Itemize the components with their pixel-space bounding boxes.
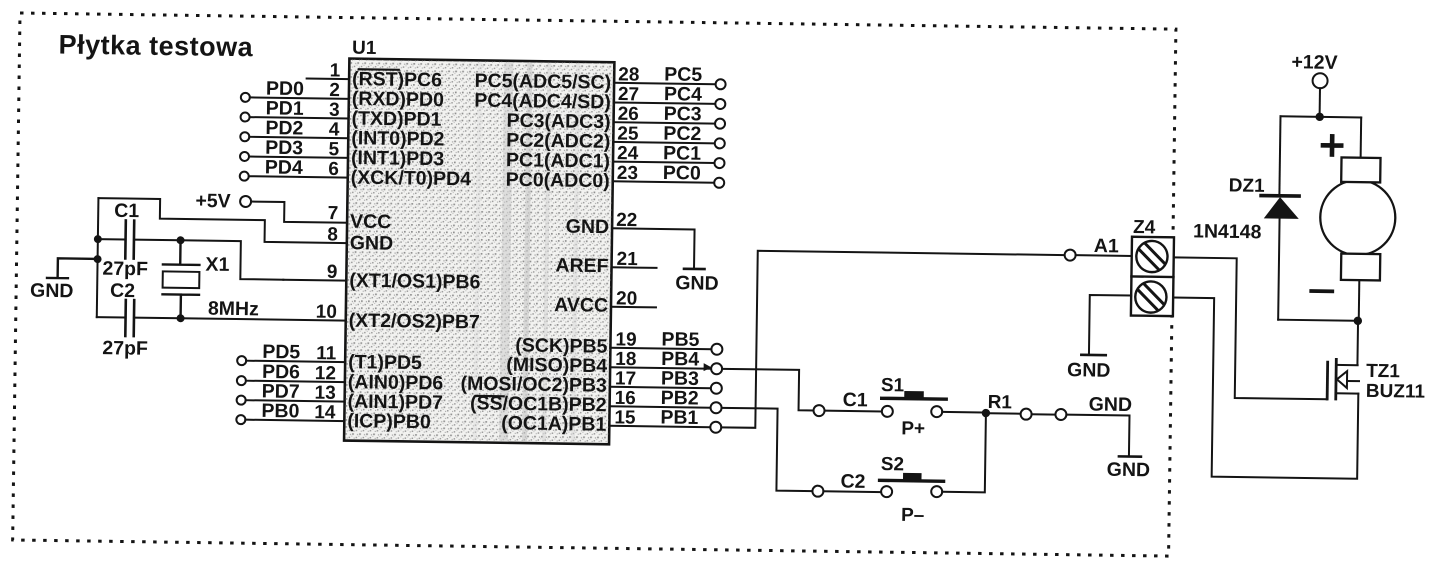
U1 pin 13 wire, pad and label PD7: [237, 380, 345, 406]
svg-text:PC0: PC0: [663, 162, 701, 185]
svg-text:(OC1A)PB1: (OC1A)PB1: [501, 412, 607, 435]
U1 pin 9 wire and number: [283, 261, 346, 283]
svg-text:14: 14: [314, 402, 336, 423]
svg-text:3: 3: [329, 100, 340, 121]
U1 pin 15 wire and pad (PB1): [609, 406, 721, 433]
svg-text:PD4: PD4: [265, 156, 303, 179]
ground symbol below Z4 (GND): [1067, 355, 1111, 382]
svg-text:P–: P–: [901, 505, 925, 526]
svg-text:(XT1/OS1)PB6: (XT1/OS1)PB6: [349, 270, 481, 294]
crystal X1 8MHz: [162, 240, 260, 320]
svg-text:15: 15: [614, 407, 636, 428]
terminal block Z4: [1131, 217, 1174, 316]
U1 pin 18 wire and pad (PB4): [610, 347, 722, 374]
wire A1 pad to Z4: [1076, 254, 1132, 257]
svg-text:12: 12: [315, 363, 336, 384]
wire S1 to node R1: [942, 411, 982, 414]
wire Z4 bottom terminal to TZ1 source: [1171, 298, 1360, 479]
U1 pin 26 wire, pad and label PC3: [613, 102, 725, 129]
U1 pin 6 wire, pad and label PD4: [240, 156, 348, 182]
svg-text:8MHz: 8MHz: [208, 298, 259, 321]
pushbutton S1 (P+): [880, 375, 946, 440]
svg-text:BUZ11: BUZ11: [1366, 381, 1426, 403]
svg-text:(XCK/T0)PD4: (XCK/T0)PD4: [351, 167, 472, 191]
svg-text:GND: GND: [1067, 359, 1111, 382]
svg-text:10: 10: [316, 302, 337, 323]
U1 pin 20 stub (AVCC): [611, 288, 656, 310]
svg-text:VCC: VCC: [350, 211, 391, 234]
svg-text:GND: GND: [350, 232, 394, 255]
svg-text:23: 23: [617, 163, 638, 184]
svg-text:GND: GND: [30, 280, 74, 303]
wire PB4 to S1 contact: [722, 369, 815, 411]
svg-text:C1: C1: [114, 200, 139, 222]
svg-text:GND: GND: [566, 216, 610, 239]
svg-text:8: 8: [327, 224, 338, 245]
wire from GND rail top to U1 pin 8: [98, 198, 348, 243]
svg-text:(ICP)PB0: (ICP)PB0: [347, 410, 431, 433]
capacitor C1: [97, 200, 181, 281]
svg-text:+5V: +5V: [195, 190, 231, 212]
svg-text:7: 7: [328, 203, 339, 224]
svg-text:5: 5: [328, 139, 339, 160]
U1 pin 24 wire, pad and label PC1: [613, 142, 725, 169]
svg-text:+12V: +12V: [1291, 51, 1337, 74]
U1 pin 11 wire, pad and label PD5: [237, 341, 345, 367]
wire C1 pads: [825, 410, 882, 413]
U1 pin 21 stub (AREF): [611, 249, 656, 271]
node: junction GND rail / GND tap: [94, 255, 102, 263]
U1 pin 16 wire and pad (PB2): [610, 386, 722, 413]
wire PB1 to node A1: [721, 250, 1064, 432]
svg-text:24: 24: [617, 143, 639, 164]
resistor R1 pads: [990, 408, 1066, 420]
svg-text:2: 2: [329, 80, 340, 101]
svg-text:GND: GND: [675, 272, 719, 295]
svg-text:A1: A1: [1094, 235, 1119, 257]
svg-text:1N4148: 1N4148: [1193, 220, 1262, 243]
U1 pin 12 wire, pad and label PD6: [237, 361, 345, 387]
ground symbol below R1 wire (GND): [1107, 456, 1151, 481]
svg-text:26: 26: [618, 104, 639, 125]
wire S2 to node R1: [942, 417, 986, 493]
svg-text:16: 16: [615, 388, 636, 409]
node R1 junction: [982, 409, 991, 418]
svg-text:18: 18: [615, 349, 636, 370]
wire +12V rail: [1280, 116, 1361, 117]
svg-text:C2: C2: [840, 471, 865, 493]
contact C1 (left pad): [813, 389, 867, 417]
node A1 pad: [1065, 235, 1120, 262]
junction arrow at PB4 pad: [704, 363, 712, 371]
U1 pin 17 wire and pad (PB3): [610, 367, 722, 394]
U1 pin 14 wire, pad and label PB0: [236, 400, 344, 426]
node: junction X1 bottom / C2 right / pin10 wire: [177, 314, 185, 322]
svg-text:S1: S1: [881, 375, 905, 396]
U1 pin 4 wire, pad and label PD2: [240, 117, 348, 143]
svg-text:6: 6: [328, 159, 339, 180]
U1 pin 1 wire (RST): [307, 60, 350, 82]
node: junction C1 right / X1 top: [177, 236, 185, 244]
U1 pin 19 wire and pad (PB5): [610, 328, 722, 355]
svg-text:21: 21: [616, 249, 638, 270]
wire GND rail left of C1/C2: [97, 198, 99, 317]
svg-text:U1: U1: [352, 38, 377, 59]
U1 internal pin names right column: [460, 70, 612, 436]
svg-text:P+: P+: [901, 418, 925, 439]
ground symbol left (GND): [30, 258, 98, 303]
diode DZ1 1N4148: [1192, 115, 1300, 320]
contact C2 (left pad): [812, 470, 865, 497]
svg-text:13: 13: [314, 383, 335, 404]
U1 pin 28 wire, pad and label PC5: [614, 63, 726, 90]
svg-text:17: 17: [615, 368, 636, 389]
IC U1 microcontroller body: [344, 38, 615, 445]
svg-text:AREF: AREF: [555, 255, 608, 278]
+5V supply terminal: [195, 190, 251, 213]
U1 internal pin names left column: [347, 68, 483, 434]
wire R1 to ground: [1066, 415, 1130, 456]
node: junction GND rail / C1 left: [94, 235, 102, 243]
svg-text:(XT2/OS2)PB7: (XT2/OS2)PB7: [349, 310, 480, 334]
svg-text:X1: X1: [205, 254, 229, 276]
capacitor C2: [96, 280, 181, 361]
U1 pin1 RST overline: [359, 68, 399, 71]
U1 pin 27 wire, pad and label PC4: [614, 83, 726, 110]
svg-text:27pF: 27pF: [102, 258, 148, 281]
U1 pin 25 wire, pad and label PC2: [613, 122, 725, 149]
svg-text:25: 25: [617, 123, 639, 144]
wire PB2 to S2 contact: [720, 408, 813, 491]
ground symbol at pin 22 (GND): [675, 269, 719, 295]
wire Z4 bottom terminal to ground: [1089, 295, 1131, 354]
U1 pin16 SS overline: [476, 395, 504, 398]
node: +12V rail junction: [1315, 113, 1324, 122]
U1 pin 2 wire, pad and label PD0: [241, 77, 349, 103]
svg-text:GND: GND: [1088, 393, 1132, 416]
svg-text:Z4: Z4: [1133, 217, 1156, 238]
svg-text:PC0(ADC0): PC0(ADC0): [506, 169, 610, 192]
svg-text:1: 1: [330, 60, 341, 81]
wire Z4 top terminal to TZ1 gate: [1172, 257, 1329, 399]
svg-text:S2: S2: [881, 454, 905, 475]
U1 pin 3 wire, pad and label PD1: [241, 97, 349, 123]
svg-text:GND: GND: [1107, 459, 1151, 482]
svg-text:28: 28: [618, 64, 639, 85]
U1 pin 5 wire, pad and label PD3: [240, 136, 348, 162]
svg-text:19: 19: [615, 329, 636, 350]
transistor TZ1 BUZ11 (n-MOSFET): [1327, 359, 1426, 402]
svg-text:PB1: PB1: [660, 406, 698, 429]
U1 pin 22 wire to ground: [612, 210, 695, 268]
motor M1 (DC motor with brush blocks, + and - marks): [1311, 117, 1397, 317]
U1 pin 9 wire from crystal junction: [180, 240, 284, 279]
svg-text:11: 11: [316, 343, 337, 364]
board outline (dotted frame of test board): [13, 13, 1176, 556]
svg-text:4: 4: [329, 119, 340, 140]
wire DZ1 to motor bottom node: [1278, 320, 1354, 321]
wire motor to TZ1 drain: [1336, 321, 1358, 366]
node: motor minus junction: [1354, 317, 1363, 326]
svg-text:R1: R1: [988, 392, 1013, 413]
svg-text:20: 20: [616, 288, 637, 309]
svg-text:27: 27: [618, 84, 639, 105]
svg-text:Płytka testowa: Płytka testowa: [58, 30, 253, 63]
svg-text:22: 22: [616, 210, 637, 231]
svg-text:27pF: 27pF: [102, 337, 148, 360]
svg-text:C1: C1: [843, 389, 868, 411]
svg-text:TZ1: TZ1: [1366, 361, 1401, 382]
pushbutton S2 (P-): [879, 454, 944, 526]
+12V supply terminal: [1291, 51, 1338, 113]
wire C2 pads: [823, 490, 881, 493]
wire +5V to U1 pin 7: [251, 202, 348, 223]
svg-text:PB0: PB0: [261, 400, 299, 423]
svg-text:AVCC: AVCC: [554, 294, 608, 317]
U1 pin 23 wire, pad and label PC0: [613, 161, 725, 188]
svg-text:9: 9: [327, 262, 338, 283]
wire X1 junction to U1 pin 10: [181, 318, 346, 320]
svg-text:DZ1: DZ1: [1229, 175, 1266, 197]
svg-text:C2: C2: [110, 280, 135, 302]
